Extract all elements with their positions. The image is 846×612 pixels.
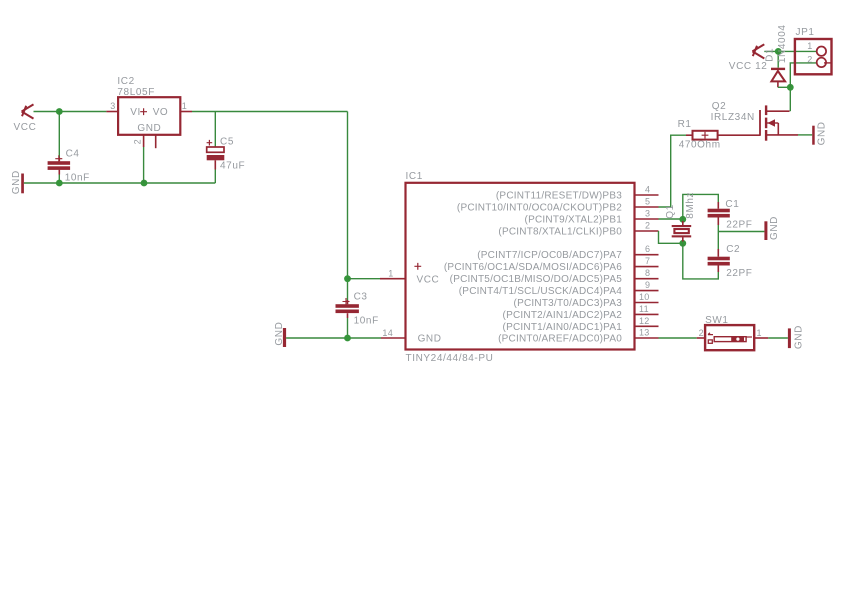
svg-text:10nF: 10nF [65, 173, 90, 184]
svg-text:(PCINT1/AIN0/ADC1)PA1: (PCINT1/AIN0/ADC1)PA1 [503, 322, 623, 333]
capacitor C3 [336, 298, 359, 318]
pin stub IC2 unconnected [155, 135, 157, 148]
svg-text:1: 1 [388, 269, 393, 279]
wire branch down to C5 [214, 112, 216, 148]
svg-text:(PCINT10/INT0/OC0A/CKOUT)PB2: (PCINT10/INT0/OC0A/CKOUT)PB2 [457, 203, 622, 214]
svg-text:IRLZ34N: IRLZ34N [711, 112, 755, 123]
pin names right column [444, 191, 622, 345]
svg-text:GND: GND [817, 121, 828, 145]
pin stub IC2 GND down [143, 135, 145, 147]
wire C3 to bottom rail [347, 318, 349, 338]
svg-text:3: 3 [110, 101, 115, 111]
pin stub SW1 right [754, 337, 768, 339]
svg-text:GND: GND [794, 325, 805, 349]
pin stub SW1 left [697, 337, 705, 339]
svg-text:(PCINT9/XTAL2)PB1: (PCINT9/XTAL2)PB1 [525, 215, 623, 226]
svg-text:Q1: Q1 [665, 204, 676, 219]
svg-text:9: 9 [645, 280, 650, 290]
svg-text:3: 3 [645, 209, 650, 219]
svg-text:C5: C5 [220, 136, 234, 147]
svg-text:13: 13 [639, 328, 650, 338]
wire D1 anode to drain node [778, 86, 790, 88]
svg-text:(PCINT4/T1/SCL/USCK/ADC4)PA4: (PCINT4/T1/SCL/USCK/ADC4)PA4 [459, 286, 622, 297]
svg-text:10nF: 10nF [354, 315, 379, 326]
wire bottom rail to IC1 pin 14 [286, 337, 381, 339]
wire IC2 VO across top [192, 111, 348, 113]
svg-text:2: 2 [807, 55, 812, 65]
node junction VCC12/D1 [775, 48, 782, 55]
capacitor C4 [48, 155, 71, 174]
node junction crystal top [679, 216, 686, 223]
svg-text:(PCINT8/XTAL1/CLKI)PB0: (PCINT8/XTAL1/CLKI)PB0 [498, 227, 622, 238]
svg-text:C3: C3 [354, 292, 368, 303]
svg-text:78L05F: 78L05F [117, 87, 155, 98]
svg-text:1: 1 [807, 41, 812, 51]
svg-text:VCC 12: VCC 12 [729, 61, 768, 72]
pin numbers right column [639, 185, 650, 338]
svg-text:(PCINT0/AREF/ADC0)PA0: (PCINT0/AREF/ADC0)PA0 [498, 334, 622, 345]
svg-text:1: 1 [182, 101, 187, 111]
switch SW1 [705, 325, 754, 350]
svg-text:(PCINT7/ICP/OC0B/ADC7)PA7: (PCINT7/ICP/OC0B/ADC7)PA7 [477, 250, 622, 261]
svg-text:(PCINT5/OC1B/MISO/DO/ADC5)PA5: (PCINT5/OC1B/MISO/DO/ADC5)PA5 [450, 274, 623, 285]
wire C1/C2 to ground [718, 225, 764, 249]
pin stub IC2 pin 3 [106, 111, 118, 113]
svg-text:4: 4 [645, 185, 650, 195]
IC U1 ATtiny box [406, 183, 635, 350]
wire junction down to D1 [777, 51, 779, 67]
svg-text:8: 8 [645, 268, 650, 278]
svg-text:C2: C2 [726, 244, 740, 255]
svg-text:Q2: Q2 [712, 101, 727, 112]
wire VO down to VCC node [347, 112, 349, 301]
svg-text:R1: R1 [678, 119, 692, 130]
origin cross IC1 [414, 263, 421, 270]
svg-text:D1: D1 [765, 48, 776, 62]
svg-text:1: 1 [757, 328, 762, 338]
ground symbol GND (SW1) [788, 328, 791, 348]
svg-text:VI: VI [130, 107, 141, 118]
wire JP1 pin 2 drop [790, 63, 816, 87]
node junction C4/rail [56, 180, 63, 187]
svg-text:GND: GND [769, 216, 780, 240]
node junction crystal bottom [679, 240, 686, 247]
wire C5 to rail [214, 170, 216, 184]
wire PA0 pin13 to SW1 [659, 337, 697, 339]
svg-text:470Ohm: 470Ohm [679, 140, 721, 151]
svg-text:6: 6 [645, 244, 650, 254]
pin stub IC1 pin 14 [381, 337, 406, 339]
svg-text:47uF: 47uF [220, 161, 245, 172]
supply symbol VCC (top-left) [22, 104, 34, 118]
svg-text:2: 2 [645, 221, 650, 231]
wire VCC to IC2 VI [34, 111, 107, 113]
wire ground rail y=183 [24, 182, 215, 184]
wire C4 to ground rail [58, 175, 60, 184]
wire PB0 pin2 to crystal bottom [659, 231, 683, 243]
svg-text:VCC: VCC [14, 122, 37, 133]
node junction D1/JP1-2/drain [787, 84, 794, 91]
wire PB1 pin3 to crystal top [659, 218, 683, 220]
svg-text:2: 2 [699, 328, 704, 338]
ground symbol GND (right of Q2) [812, 126, 815, 145]
svg-text:10: 10 [639, 292, 650, 302]
wire crystal top to C1 [683, 194, 719, 219]
svg-text:GND: GND [11, 170, 22, 194]
svg-text:7: 7 [645, 256, 650, 266]
svg-text:(PCINT6/OC1A/SDA/MOSI/ADC6)PA6: (PCINT6/OC1A/SDA/MOSI/ADC6)PA6 [444, 262, 622, 273]
wire IC2 GND to rail [143, 147, 145, 183]
pin stub IC1 pin 1 [380, 278, 406, 280]
supply symbol VCC 12 (top-right) [752, 44, 764, 58]
diode D1 1N4004 [771, 69, 785, 87]
ground symbol GND (crystal caps) [764, 221, 767, 240]
svg-text:VO: VO [153, 107, 169, 118]
wire junction to IC1 pin 1 [348, 278, 381, 280]
svg-text:TINY24/44/84-PU: TINY24/44/84-PU [406, 353, 494, 364]
svg-text:14: 14 [382, 328, 393, 338]
svg-text:IC1: IC1 [406, 171, 423, 182]
ground symbol GND (left) [21, 174, 24, 194]
svg-text:5: 5 [645, 197, 650, 207]
node junction IC2-GND/rail [141, 180, 148, 187]
svg-text:IC2: IC2 [117, 76, 134, 87]
svg-text:8Mhz: 8Mhz [685, 192, 696, 219]
connector JP1 [795, 39, 832, 74]
svg-text:12: 12 [639, 316, 650, 326]
svg-text:11: 11 [639, 304, 649, 314]
node junction C3/rail [344, 335, 351, 342]
svg-text:C1: C1 [725, 199, 739, 210]
wire VCC12 to JP1 pin 1 [764, 50, 816, 52]
svg-text:22PF: 22PF [726, 268, 752, 279]
resistor R1 [686, 131, 760, 140]
origin cross IC2 [140, 108, 147, 115]
svg-text:JP1: JP1 [796, 27, 815, 38]
wire crystal bottom to C2 [683, 243, 719, 279]
svg-text:22PF: 22PF [726, 219, 752, 230]
svg-text:GND: GND [274, 322, 285, 346]
wire Q2 source to ground [798, 134, 812, 136]
svg-text:(PCINT3/T0/ADC3)PA3: (PCINT3/T0/ADC3)PA3 [514, 298, 623, 309]
svg-text:SW1: SW1 [705, 315, 728, 326]
node junction IC1 VCC [344, 275, 351, 282]
wire PB2 pin5 to gate riser [659, 135, 687, 207]
ground symbol GND (bottom middle) [283, 328, 286, 347]
svg-text:VCC: VCC [417, 274, 440, 285]
svg-text:GND: GND [137, 123, 161, 134]
pin stubs IC1 right [635, 195, 659, 338]
svg-text:2: 2 [133, 139, 143, 144]
crystal Q1 8Mhz [672, 221, 692, 242]
svg-text:C4: C4 [66, 149, 80, 160]
transistor Q2 IRLZ34N [760, 105, 798, 140]
op-amp IC2 78L05 regulator box [118, 97, 180, 135]
pin stub IC2 pin 1 [180, 111, 192, 113]
wire Q2 drain up to diode node [789, 87, 791, 111]
svg-text:(PCINT11/RESET/DW)PB3: (PCINT11/RESET/DW)PB3 [496, 191, 622, 202]
svg-text:GND: GND [418, 334, 442, 345]
svg-text:1N4004: 1N4004 [777, 24, 788, 63]
wire SW1 to ground [768, 337, 788, 339]
svg-text:(PCINT2/AIN1/ADC2)PA2: (PCINT2/AIN1/ADC2)PA2 [503, 310, 623, 321]
capacitor C5 polarized [207, 140, 225, 170]
capacitor C2 [708, 249, 730, 272]
wire junction down to C4 [58, 112, 60, 158]
capacitor C1 [708, 202, 730, 225]
node junction VCC/C4 [56, 108, 63, 115]
